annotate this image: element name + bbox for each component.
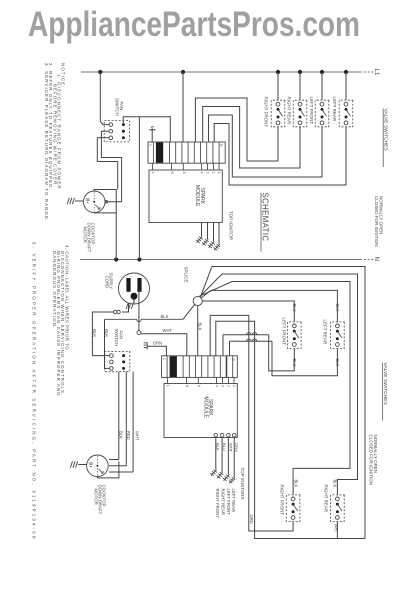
strip divider (bottom) — [188, 356, 190, 378]
strip divider — [200, 142, 202, 163]
supply cord plug body — [119, 273, 150, 304]
valve switch LEFT FRONT arm — [322, 109, 327, 116]
svg-text:5. VERIFY PROPER OPERATION AFT: 5. VERIFY PROPER OPERATION AFTER SERVICI… — [32, 242, 37, 541]
junction on N — [137, 257, 141, 261]
ignitor electrode (top) — [214, 244, 221, 250]
valve switch LEFT REAR terminal — [344, 121, 348, 125]
ignitor electrode (bottom) — [229, 477, 236, 483]
svg-text:LEFT FRONT: LEFT FRONT — [226, 489, 231, 516]
motor cooktop downdraft (bottom) arrow — [99, 469, 103, 473]
wire fan sw to terminal strip — [123, 117, 170, 142]
stub strip-module (bottom) — [167, 377, 169, 383]
wire strip to LEFT FRONT valve — [209, 115, 323, 177]
wire splice to LEFT REAR — [201, 290, 337, 322]
wire into motor t2 — [109, 465, 126, 467]
svg-text:N: N — [185, 385, 189, 388]
stub strip-module (bottom) — [228, 377, 230, 383]
wire connectors to fan switch BLK — [92, 312, 113, 356]
valve switch LEFT REAR (diagram) contact — [336, 337, 339, 340]
svg-text:WHT: WHT — [228, 443, 233, 453]
wire plug ground stub — [133, 300, 135, 303]
wire L1 to fan switch — [100, 72, 108, 125]
svg-text:BLK: BLK — [216, 443, 221, 451]
wire strip to LEFT REAR valve — [214, 124, 346, 186]
svg-text:L1: L1 — [373, 69, 380, 76]
strip divider (bottom) — [182, 356, 184, 378]
terminal strip black cell (bottom) — [170, 356, 177, 377]
wire L1 rail dashed end — [360, 71, 374, 73]
valve switch RIGHT REAR contact — [299, 108, 302, 111]
svg-text:L: L — [151, 172, 155, 174]
valve switch RIGHT REAR terminal — [298, 102, 302, 106]
wire WHT to strip — [141, 334, 187, 356]
valve switch LEFT REAR box — [339, 100, 353, 127]
svg-text:BLU: BLU — [292, 304, 297, 312]
wire splice to strip — [197, 306, 199, 356]
svg-text:BLK: BLK — [161, 314, 169, 319]
wire ORN path — [210, 315, 293, 531]
svg-text:N: N — [170, 172, 174, 175]
svg-text:L: L — [166, 385, 170, 387]
svg-text:2: 2 — [212, 172, 216, 174]
strip divider (bottom) — [207, 356, 209, 378]
switch fan (bottom) contact — [122, 360, 125, 363]
valve switch LEFT FRONT box — [315, 100, 329, 127]
switch fan (top) contact — [122, 136, 125, 139]
svg-text:1: 1 — [232, 385, 236, 387]
switch fan (top) contact — [122, 123, 125, 126]
valve switch RIGHT FRONT terminal — [276, 102, 280, 106]
motor cooktop downdraft (top) arrow — [95, 205, 99, 209]
ground (top motor) — [67, 198, 74, 204]
valve switch RIGHT FRONT (diagram) arm — [293, 504, 298, 511]
valve switch RIGHT FRONT (diagram) contact — [292, 503, 295, 506]
underline SCHEMATIC — [260, 193, 262, 252]
valve switch RIGHT FRONT (diagram) terminal — [291, 497, 295, 501]
svg-text:RIGHT FRONT: RIGHT FRONT — [215, 489, 220, 519]
valve switch LEFT FRONT (diagram) contact — [293, 337, 296, 340]
svg-text:BLK: BLK — [333, 480, 338, 488]
valve switch RIGHT REAR (diagram) contact — [336, 503, 339, 506]
valve switch LEFT REAR terminal — [344, 102, 348, 106]
wire motor right terminal — [105, 201, 121, 203]
wire splice loop inner — [199, 282, 350, 495]
valve switch RIGHT FRONT (diagram) contact — [292, 510, 295, 513]
svg-text:RIGHT REAR: RIGHT REAR — [221, 489, 226, 515]
underline VALVE SWITCHES (top) — [382, 109, 384, 168]
svg-text:GRN: GRN — [153, 341, 162, 346]
svg-text:3: 3 — [221, 385, 225, 387]
wire LR bottom — [272, 341, 337, 375]
wire module to ignitor — [213, 223, 215, 242]
ignitor electrode (top) — [208, 242, 215, 248]
wire splice to BLK — [183, 304, 195, 319]
strip divider — [187, 142, 189, 163]
svg-text:L: L — [148, 145, 152, 147]
svg-text:CORD: CORD — [104, 276, 109, 289]
stub strip-module (bottom) — [197, 377, 199, 383]
svg-text:WHT: WHT — [334, 524, 339, 534]
svg-text:SCHEMATIC: SCHEMATIC — [260, 193, 269, 242]
valve switch LEFT REAR contact — [345, 116, 348, 119]
wire ground to motor (bottom) — [78, 464, 87, 466]
wire module to ignitor (bottom) — [233, 437, 235, 477]
wire module to ignitor (bottom) — [221, 437, 223, 472]
svg-text:SPLICE: SPLICE — [183, 267, 188, 283]
stub strip-module — [171, 163, 173, 170]
svg-text:RED: RED — [126, 431, 131, 440]
wire into motor t3 — [109, 471, 133, 473]
valve switch RIGHT REAR box — [293, 100, 307, 127]
switch fan (bottom) terminal — [110, 360, 114, 364]
wire N rail dashed end — [360, 259, 374, 261]
svg-text:BLK: BLK — [335, 304, 340, 312]
svg-text:LEFT FRONT: LEFT FRONT — [309, 97, 314, 125]
strip divider (bottom) — [166, 356, 168, 378]
plug prong left — [126, 278, 130, 292]
switch fan (bottom) contact — [122, 354, 125, 357]
valve switch RIGHT FRONT (diagram) box — [286, 495, 300, 522]
terminal strip black cell — [156, 142, 163, 162]
stub strip-module — [213, 163, 215, 170]
valve switch LEFT FRONT (diagram) contact — [293, 330, 296, 333]
valve switch LEFT FRONT contact — [321, 108, 324, 111]
svg-text:ORN: ORN — [234, 443, 239, 452]
strip thick divider (bottom) — [226, 356, 228, 378]
valve switch LEFT REAR (diagram) arm — [337, 331, 342, 338]
valve switch RIGHT FRONT arm — [278, 109, 283, 116]
wire module to ignitor — [218, 223, 220, 245]
wire into motor t1 — [109, 459, 119, 461]
stub strip-module (bottom) — [222, 377, 224, 383]
motor cooktop downdraft (bottom) center — [96, 465, 98, 467]
svg-text:BLK: BLK — [294, 480, 299, 488]
module output terminal — [214, 433, 218, 437]
svg-text:BLU: BLU — [222, 443, 227, 451]
strip divider (bottom) — [219, 356, 221, 378]
motor cooktop downdraft (top) internal ground — [86, 199, 90, 202]
valve switch RIGHT FRONT terminal — [276, 121, 280, 125]
valve switch LEFT REAR (diagram) contact — [336, 330, 339, 333]
ground clip bar — [146, 342, 148, 349]
svg-text:AppliancePartsPros.com: AppliancePartsPros.com — [28, 5, 360, 44]
svg-text:TOP IGNITOR: TOP IGNITOR — [228, 211, 233, 241]
svg-text:SWITCH: SWITCH — [114, 98, 119, 116]
plug prong right — [137, 278, 141, 292]
svg-text:1: 1 — [217, 172, 221, 174]
valve switch LEFT REAR contact — [345, 108, 348, 111]
svg-text:4: 4 — [215, 385, 219, 387]
svg-text:RIGHT REAR: RIGHT REAR — [287, 97, 292, 125]
valve switch RIGHT REAR terminal — [298, 121, 302, 125]
svg-text:RIGHT FRONT: RIGHT FRONT — [264, 97, 269, 128]
wire module to ignitor — [207, 223, 209, 240]
wire LF bottom — [269, 335, 295, 371]
stub strip-module — [207, 163, 209, 170]
stub strip-module — [182, 163, 184, 170]
motor cooktop downdraft (bottom) internal line — [96, 456, 98, 476]
svg-text:DANGEROUS OPERATION.: DANGEROUS OPERATION. — [52, 251, 57, 329]
svg-text:L: L — [162, 359, 166, 361]
switch fan (top) box — [104, 121, 129, 142]
svg-text:CLOSED FOR IGNITION: CLOSED FOR IGNITION — [374, 196, 379, 247]
terminal strip (top) — [148, 142, 225, 163]
svg-text:BLK: BLK — [104, 329, 109, 337]
valve switch LEFT REAR arm — [346, 109, 351, 116]
valve switch RIGHT FRONT contact — [277, 116, 280, 119]
svg-text:LEFT REAR: LEFT REAR — [332, 97, 337, 122]
valve switch RIGHT REAR (diagram) terminal — [336, 497, 340, 501]
valve switch RIGHT REAR arm — [300, 109, 305, 116]
svg-text:ORN: ORN — [249, 515, 254, 524]
junction on L1 — [181, 70, 185, 74]
wire motor bottom to N drop — [94, 212, 116, 214]
motor cooktop downdraft (top) body — [83, 191, 105, 213]
wire module to ignitor — [201, 223, 203, 237]
motor cooktop downdraft (bottom) internal ground — [89, 463, 93, 466]
wire splice to LEFT FRONT — [202, 301, 294, 322]
junction on L1 — [276, 70, 280, 74]
svg-text:3: 3 — [206, 172, 210, 174]
valve switch RIGHT REAR (diagram) terminal — [336, 516, 340, 520]
wire strip to RIGHT REAR valve — [203, 107, 300, 169]
wire L1 to valve switch — [277, 72, 279, 100]
svg-text:BLK: BLK — [119, 431, 124, 439]
strip divider — [212, 142, 214, 163]
schematic rotated group — [32, 63, 389, 541]
wire module to ignitor (bottom) — [215, 437, 217, 470]
wire BLK horizontal with hop — [105, 319, 184, 321]
svg-text:MOTOR: MOTOR — [94, 489, 99, 505]
wire motor top to N — [94, 190, 116, 260]
terminal WHT — [137, 331, 141, 335]
sensor probe bar — [149, 129, 155, 131]
wire BLK to fan row3 — [105, 319, 110, 368]
svg-text:RIGHT REAR: RIGHT REAR — [324, 485, 329, 513]
valve switch RIGHT FRONT box — [271, 100, 285, 127]
svg-text:4: 4 — [200, 172, 204, 174]
svg-text:LEFT REAR: LEFT REAR — [323, 320, 328, 345]
svg-text:N: N — [231, 359, 235, 362]
ground (bottom motor) — [70, 461, 77, 467]
wire fan sw row3 to motor top — [97, 138, 117, 190]
junction on L1 — [344, 70, 348, 74]
switch fan (bottom) terminal — [110, 354, 114, 358]
terminal strip (bottom) — [162, 356, 238, 378]
valve switch RIGHT REAR (diagram) contact — [336, 510, 339, 513]
spark module (bottom) — [164, 384, 237, 438]
wire LR return to strip — [230, 339, 273, 341]
splice — [193, 296, 202, 305]
switch fan (bottom) contact — [122, 367, 125, 370]
valve switch LEFT FRONT terminal — [320, 121, 324, 125]
svg-text:SWITCH: SWITCH — [114, 329, 119, 347]
junction on L1 — [320, 70, 324, 74]
module output terminal — [232, 433, 236, 437]
wire rail return path — [216, 321, 365, 538]
svg-text:MODULE: MODULE — [194, 185, 200, 207]
svg-text:3. SERVICER PLEASE RETURN DIAG: 3. SERVICER PLEASE RETURN DIAGRAM TO RAN… — [44, 63, 49, 222]
junction on L1 — [298, 70, 302, 74]
svg-text:WHT: WHT — [163, 328, 173, 333]
strip divider (bottom) — [201, 356, 203, 378]
strip divider (bottom) — [195, 356, 197, 378]
svg-text:N: N — [373, 257, 380, 261]
valve switch LEFT REAR (diagram) terminal — [336, 343, 340, 347]
wire ground to motor — [75, 200, 84, 202]
valve switch LEFT REAR (diagram) box — [331, 322, 345, 349]
switch fan (top) terminal — [109, 123, 113, 127]
ignitor electrode (bottom) — [217, 472, 224, 478]
valve switch RIGHT REAR contact — [299, 116, 302, 119]
wire splice loop mid — [200, 274, 358, 495]
wire L1 to valve switch — [299, 72, 301, 100]
svg-text:CLOSED FOR IGNITION: CLOSED FOR IGNITION — [368, 435, 373, 486]
wire strip to RIGHT FRONT valve — [195, 98, 278, 161]
ignitor electrode (bottom) — [223, 475, 230, 481]
sensor probe tip — [151, 126, 154, 129]
valve switch LEFT REAR (diagram) terminal — [336, 324, 340, 328]
module output terminal — [220, 433, 224, 437]
stub strip-module (bottom) — [233, 377, 235, 383]
strip divider (bottom) — [213, 356, 215, 378]
motor cooktop downdraft (bottom) body — [87, 455, 109, 477]
valve switch LEFT FRONT (diagram) terminal — [292, 324, 296, 328]
stub strip-module (bottom) — [216, 377, 218, 383]
wire L1 drop to strip — [182, 72, 184, 142]
wire LF return drop — [222, 335, 224, 356]
wire fan to motor WHT — [132, 372, 134, 472]
plug ground prong — [131, 293, 138, 300]
junction on L1 — [98, 70, 102, 74]
wire fan to motor BLK — [118, 372, 120, 460]
wire L1 to valve switch — [321, 72, 323, 100]
wire LR return drop — [229, 341, 231, 356]
strip divider — [193, 142, 195, 163]
wire RR bottom to rail — [336, 522, 338, 539]
wire L1 to valve switch — [345, 72, 347, 100]
motor cooktop downdraft (bottom) arrowhead — [101, 471, 103, 473]
junction on N — [114, 257, 118, 261]
ground (plug) — [126, 303, 133, 309]
wire motor bottom loop — [97, 462, 119, 478]
stub strip-module — [218, 163, 220, 170]
stub strip-module (bottom) — [186, 377, 188, 383]
wire GRN to strip — [147, 346, 166, 356]
svg-text:BLK: BLK — [198, 323, 203, 331]
spark module (top) — [149, 170, 222, 223]
wire fan to motor RED — [125, 372, 127, 466]
svg-text:BLK: BLK — [92, 329, 97, 337]
wire L1 rail — [81, 71, 360, 73]
svg-text:LEFT FRONT: LEFT FRONT — [282, 318, 287, 346]
ignitor electrode (top) — [196, 237, 203, 243]
motor cooktop downdraft (top) internal line — [93, 192, 95, 212]
strip divider — [169, 142, 171, 163]
switch fan (top) terminal — [109, 129, 113, 133]
strip divider (bottom) — [232, 356, 234, 378]
svg-text:MOTOR: MOTOR — [83, 227, 88, 243]
butt connector — [117, 310, 120, 313]
wire splice loop outer — [200, 267, 365, 539]
svg-text:WHT: WHT — [135, 431, 140, 441]
valve switch LEFT FRONT (diagram) terminal — [292, 343, 296, 347]
stub strip-module — [152, 163, 154, 170]
motor cooktop downdraft (top) arrowhead — [98, 207, 100, 209]
ground clip GRN — [144, 343, 147, 348]
wire plug right prong down — [138, 292, 140, 331]
svg-text:MODULE: MODULE — [202, 397, 208, 419]
valve switch LEFT FRONT (diagram) arm — [294, 331, 299, 338]
valve switch LEFT FRONT terminal — [320, 102, 324, 106]
svg-text:TOP IGNITORS: TOP IGNITORS — [240, 468, 245, 500]
underline VALVE SWITCHES (bottom) — [382, 363, 384, 421]
valve switch LEFT FRONT contact — [321, 116, 324, 119]
ignitor electrode (top) — [202, 239, 209, 245]
module output terminal — [227, 433, 231, 437]
valve switch RIGHT REAR (diagram) arm — [337, 504, 342, 511]
motor cooktop downdraft (top) center — [93, 201, 95, 203]
svg-text:LEFT REAR: LEFT REAR — [231, 489, 236, 513]
sensor probe stem — [151, 128, 153, 142]
svg-text:A: A — [182, 172, 186, 175]
strip divider — [181, 142, 183, 163]
switch fan (bottom) terminal — [110, 367, 114, 371]
svg-text:A: A — [197, 385, 201, 388]
switch fan (top) contact — [122, 130, 125, 133]
switch fan (bottom) box — [105, 351, 130, 371]
wire fan area to N — [138, 117, 140, 260]
wire LF return to strip — [223, 333, 269, 335]
wire fan sw row2 to motor — [101, 131, 121, 202]
ignitor electrode (bottom) — [210, 470, 217, 476]
valve switch LEFT FRONT (diagram) box — [288, 322, 302, 349]
strip divider — [206, 142, 208, 163]
switch fan (top) terminal — [109, 136, 113, 140]
wire module to ignitor (bottom) — [227, 437, 229, 475]
strip divider — [152, 142, 154, 163]
svg-text:N: N — [219, 144, 223, 147]
stub strip-module — [201, 163, 203, 170]
valve switch RIGHT REAR (diagram) box — [331, 495, 345, 522]
svg-text:2: 2 — [227, 385, 231, 387]
motor terminal bump — [105, 201, 108, 204]
butt connector — [114, 310, 117, 313]
strip divider — [175, 142, 177, 163]
strip divider — [218, 142, 220, 163]
wire plug left prong to connectors — [122, 303, 129, 312]
svg-text:RIGHT FRONT: RIGHT FRONT — [280, 485, 285, 516]
valve switch RIGHT FRONT contact — [277, 108, 280, 111]
valve switch RIGHT FRONT (diagram) terminal — [291, 516, 295, 520]
wire motor bottom stub — [93, 211, 95, 214]
wire N rail — [80, 259, 360, 261]
